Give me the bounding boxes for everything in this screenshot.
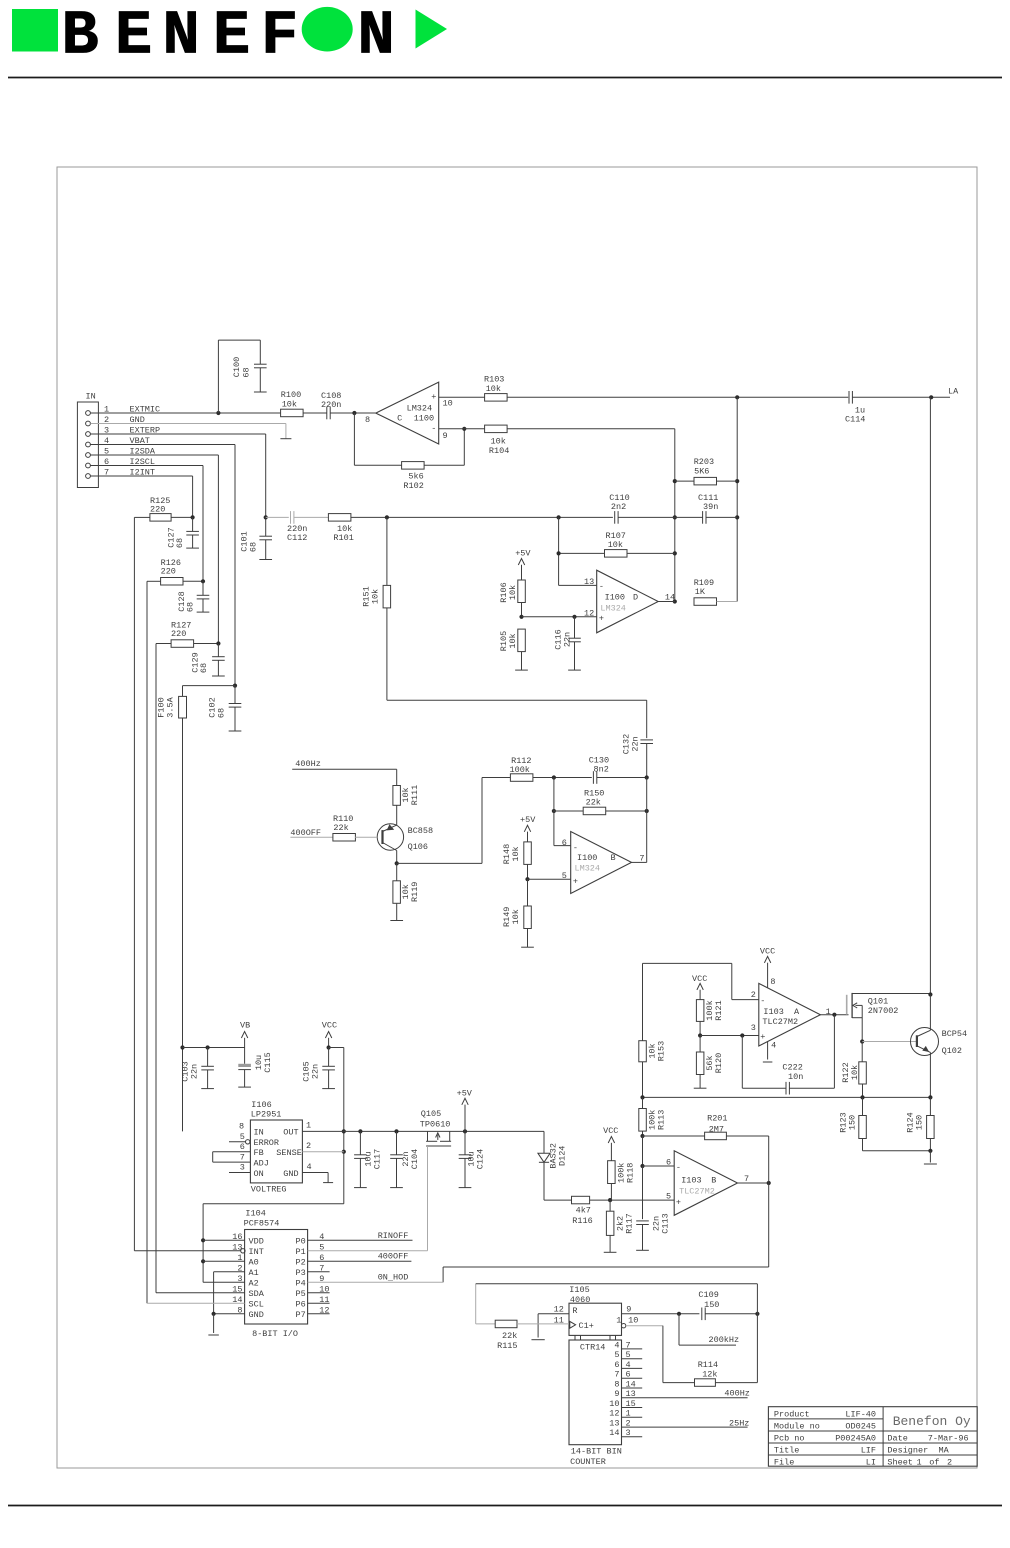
svg-text:10k: 10k	[508, 633, 518, 648]
capacitor C108	[321, 391, 341, 420]
svg-text:22k: 22k	[502, 1331, 517, 1341]
svg-text:22n: 22n	[311, 1064, 321, 1079]
svg-text:C112: C112	[287, 533, 307, 543]
svg-text:R201: R201	[707, 1113, 727, 1123]
svg-text:400OFF: 400OFF	[290, 828, 321, 838]
svg-text:ON: ON	[254, 1169, 264, 1179]
svg-text:C109: C109	[698, 1290, 718, 1300]
resistor R116	[572, 1196, 593, 1226]
svg-text:R116: R116	[572, 1216, 592, 1226]
svg-text:E: E	[213, 0, 250, 71]
svg-text:Title: Title	[774, 1446, 800, 1456]
net label 25Hz out	[729, 1419, 749, 1429]
power +5V R148	[520, 815, 536, 842]
wire A2 pin	[203, 1281, 245, 1283]
svg-text:9: 9	[443, 431, 448, 441]
svg-text:10: 10	[443, 398, 453, 408]
resistor R102	[402, 462, 425, 491]
svg-text:of: of	[929, 1457, 939, 1467]
svg-text:-: -	[599, 582, 604, 592]
svg-text:150: 150	[914, 1115, 924, 1130]
svg-text:VCC: VCC	[760, 946, 775, 956]
wire 0N_HOD link	[443, 1267, 769, 1282]
svg-text:10: 10	[609, 1399, 619, 1409]
svg-text:+: +	[676, 1197, 681, 1207]
capacitor C113	[636, 1166, 671, 1250]
title block	[768, 1407, 977, 1468]
wire LA vertical	[929, 397, 931, 994]
svg-text:400Hz: 400Hz	[295, 759, 321, 769]
wire U2A out	[820, 1013, 848, 1017]
svg-text:C1+: C1+	[579, 1321, 594, 1331]
wire C110-nodeA	[618, 516, 675, 518]
wire feedback R102 loop	[354, 413, 466, 465]
svg-text:R101: R101	[333, 533, 353, 543]
svg-text:D: D	[633, 593, 638, 603]
svg-text:C113: C113	[661, 1213, 671, 1233]
svg-text:12k: 12k	[702, 1370, 717, 1380]
wire out feedback link	[632, 778, 647, 863]
svg-text:3: 3	[626, 1428, 631, 1438]
bottom horizontal rule	[8, 1505, 1002, 1507]
svg-text:P5: P5	[296, 1289, 306, 1299]
wire R116-pin5 node	[590, 1198, 675, 1202]
wire EXTERP node row	[264, 515, 289, 519]
capacitor C104	[390, 1131, 420, 1187]
svg-text:R153: R153	[657, 1041, 667, 1061]
svg-text:OD0245: OD0245	[845, 1422, 876, 1432]
net stub 400OFF	[290, 828, 333, 838]
resistor R150	[552, 789, 649, 815]
svg-text:2n2: 2n2	[611, 502, 626, 512]
svg-text:A1: A1	[249, 1268, 259, 1278]
wire VDD pin	[203, 1239, 245, 1241]
svg-text:R104: R104	[489, 446, 509, 456]
resistor R115	[495, 1320, 569, 1351]
resistor R121	[696, 1000, 724, 1036]
svg-text:14: 14	[626, 1379, 636, 1389]
resistor R107	[559, 531, 675, 557]
wire P4 0N_HOD	[308, 1281, 444, 1283]
svg-text:68: 68	[242, 367, 252, 377]
ground stub C102	[229, 730, 242, 732]
svg-text:P6: P6	[296, 1300, 306, 1310]
capacitor C112	[287, 511, 307, 543]
svg-text:5: 5	[626, 1350, 631, 1360]
wire F100 down	[180, 718, 184, 1131]
svg-text:Benefon Oy: Benefon Oy	[893, 1414, 971, 1429]
svg-text:150: 150	[704, 1300, 719, 1310]
resistor R122	[841, 1042, 867, 1098]
resistor R103	[484, 375, 507, 401]
svg-text:1K: 1K	[695, 587, 706, 597]
svg-text:Q105: Q105	[421, 1109, 441, 1119]
wire P6 stub	[308, 1302, 330, 1304]
svg-text:22k: 22k	[333, 823, 348, 833]
wire pin6 node	[640, 1136, 674, 1168]
capacitor C103	[181, 1048, 214, 1089]
ground stub C124	[459, 1187, 472, 1189]
svg-text:+: +	[573, 876, 578, 886]
wire OUT row	[302, 1129, 544, 1133]
Benefon logo green O	[302, 7, 353, 52]
wire D124-R116	[544, 1162, 572, 1200]
capacitor C102	[208, 686, 242, 731]
diode D124 BAS32	[538, 1131, 568, 1168]
wire P2 400OFF	[308, 1260, 412, 1262]
svg-text:VDD: VDD	[249, 1237, 264, 1247]
resistor R153	[639, 1041, 667, 1098]
capacitor C101	[240, 517, 273, 559]
svg-text:4060: 4060	[570, 1295, 590, 1305]
counter output pins Q4-Q14	[609, 1340, 747, 1438]
svg-text:FB: FB	[254, 1148, 264, 1158]
svg-text:1100: 1100	[414, 414, 434, 424]
ground stub C117	[354, 1187, 367, 1189]
wire VCC to OUT	[329, 1048, 346, 1204]
svg-text:8-BIT I/O: 8-BIT I/O	[252, 1329, 298, 1339]
capacitor C115	[238, 1048, 273, 1088]
svg-text:I100: I100	[605, 593, 625, 603]
svg-text:7: 7	[240, 1152, 245, 1162]
schematic frame border	[57, 167, 977, 1468]
svg-text:P3: P3	[296, 1268, 306, 1278]
capacitor C129	[191, 644, 225, 677]
junction node EXTMIC/C100	[216, 411, 220, 415]
net label 400OFF	[378, 1251, 409, 1261]
power +5V at C124	[457, 1089, 473, 1132]
wire R153 loop to pin2	[643, 963, 759, 1040]
svg-text:220: 220	[150, 505, 165, 515]
svg-text:ADJ: ADJ	[254, 1159, 269, 1169]
svg-text:1: 1	[826, 1007, 831, 1017]
svg-text:I103: I103	[681, 1175, 701, 1185]
wire EXTERP	[90, 434, 265, 517]
resistor R117	[606, 1200, 634, 1252]
svg-text:C104: C104	[410, 1149, 420, 1169]
svg-text:8: 8	[614, 1379, 619, 1389]
wire C114-LA	[852, 395, 950, 399]
svg-text:+: +	[760, 1032, 765, 1042]
wire R104 to node A	[507, 429, 675, 602]
svg-text:R119: R119	[410, 882, 420, 902]
svg-text:TLC27M2: TLC27M2	[762, 1017, 798, 1027]
wire pin10 row	[616, 1315, 694, 1382]
svg-text:6: 6	[562, 838, 567, 848]
wire SCL pin	[147, 1302, 245, 1304]
svg-text:R118: R118	[626, 1163, 636, 1183]
wire VB rail	[183, 1045, 245, 1049]
svg-text:100k: 100k	[510, 765, 530, 775]
svg-text:14-BIT BIN: 14-BIT BIN	[571, 1446, 622, 1456]
op-amp U2A TLC27M2	[751, 977, 831, 1050]
svg-text:25Hz: 25Hz	[729, 1419, 749, 1429]
wire VBAT	[90, 445, 235, 686]
IC I105 4060 counter box	[569, 1335, 622, 1466]
svg-text:8: 8	[770, 977, 775, 987]
wire C108-opamp	[330, 411, 376, 415]
svg-text:VCC: VCC	[603, 1126, 618, 1136]
svg-text:C: C	[397, 414, 402, 424]
svg-text:P2: P2	[296, 1258, 306, 1268]
wire R125-INT	[133, 517, 135, 1250]
wire Q101 source node	[860, 1039, 917, 1043]
ground stub C103	[201, 1088, 214, 1090]
svg-text:I104: I104	[245, 1209, 265, 1219]
wire pin12 row	[519, 615, 596, 619]
wire P0 RINOFF	[308, 1239, 413, 1241]
svg-text:7: 7	[639, 853, 644, 863]
resistor R109	[694, 578, 738, 605]
capacitor C114	[845, 391, 865, 425]
svg-text:R114: R114	[698, 1360, 718, 1370]
wire R126-SCL	[146, 581, 148, 1303]
svg-text:8n2: 8n2	[594, 764, 609, 774]
svg-text:TP0610: TP0610	[420, 1120, 451, 1130]
junction Q106 emitter	[395, 861, 399, 865]
ground symbol pin12	[531, 1339, 544, 1341]
op-amp U1D LM324	[584, 570, 675, 633]
svg-text:Module no: Module no	[774, 1422, 820, 1432]
Benefon logo green square	[12, 9, 58, 52]
svg-text:1: 1	[306, 1121, 311, 1131]
ground pin4 U2A	[763, 1041, 773, 1062]
wire R103-C114	[507, 395, 848, 399]
svg-text:2: 2	[751, 990, 756, 1000]
wire P3 stub	[308, 1271, 330, 1273]
wire SENSE	[302, 1151, 343, 1153]
svg-text:3: 3	[751, 1023, 756, 1033]
wire GND row	[90, 424, 286, 439]
svg-text:3: 3	[240, 1163, 245, 1173]
resistor R110	[333, 814, 377, 841]
svg-text:200kHz: 200kHz	[709, 1335, 740, 1345]
svg-text:10k: 10k	[282, 399, 297, 409]
IC I104 PCF8574	[232, 1209, 329, 1340]
svg-text:R117: R117	[624, 1213, 634, 1233]
power +5V R106	[515, 549, 531, 581]
svg-text:Sheet: Sheet	[887, 1457, 913, 1467]
svg-text:22n: 22n	[190, 1064, 200, 1079]
resistor R125	[134, 496, 194, 521]
resistor R101	[328, 514, 353, 544]
wire C110 node vertical	[557, 517, 597, 585]
wire pin10 row	[439, 396, 485, 398]
ground stub C116	[568, 669, 581, 671]
svg-text:220n: 220n	[321, 400, 341, 410]
svg-text:IN: IN	[86, 392, 96, 402]
wire R100-C108	[303, 412, 327, 414]
wire C109 right	[705, 1284, 759, 1383]
svg-text:VB: VB	[240, 1021, 250, 1031]
ground stub C129	[212, 675, 225, 677]
resistor R126	[147, 558, 205, 585]
svg-text:10k: 10k	[370, 589, 380, 604]
wire R101-C110 row	[351, 515, 613, 519]
ground stub R149	[521, 946, 534, 948]
svg-text:4: 4	[307, 1162, 312, 1172]
resistor R100	[281, 390, 304, 417]
ground symbol R124	[924, 1163, 937, 1165]
svg-text:7: 7	[626, 1340, 631, 1350]
svg-text:10k: 10k	[608, 540, 623, 550]
resistor R201	[643, 1113, 769, 1139]
svg-text:0N_HOD: 0N_HOD	[378, 1272, 409, 1282]
capacitor C116	[554, 617, 581, 670]
capacitor C105	[302, 1048, 335, 1089]
top horizontal rule	[8, 77, 1002, 79]
wire R127-SDA	[155, 644, 157, 1293]
resistor R106	[499, 580, 526, 617]
svg-text:13: 13	[626, 1389, 636, 1399]
svg-text:R111: R111	[410, 785, 420, 805]
resistor R119	[393, 863, 420, 920]
svg-text:I105: I105	[569, 1285, 589, 1295]
junction R113-R201	[640, 1134, 644, 1138]
svg-text:Q102: Q102	[942, 1046, 962, 1056]
svg-text:+5V: +5V	[457, 1089, 473, 1099]
ground stub C101	[259, 559, 272, 561]
ground stub R119	[390, 920, 403, 922]
ground stub C105	[322, 1088, 335, 1090]
power flag VCC R121	[692, 974, 707, 1000]
transistor Q106 BC858	[377, 805, 433, 863]
wire emitter to R112	[397, 778, 511, 864]
svg-text:Pcb no: Pcb no	[774, 1434, 805, 1444]
svg-text:5: 5	[666, 1191, 671, 1201]
svg-text:C115: C115	[263, 1052, 273, 1072]
wire pin12 R gnd	[538, 1314, 569, 1338]
svg-text:Q106: Q106	[408, 842, 428, 852]
svg-text:D124: D124	[558, 1146, 568, 1166]
svg-text:R120: R120	[714, 1053, 724, 1073]
svg-text:GND: GND	[249, 1310, 264, 1320]
svg-text:File: File	[774, 1457, 794, 1467]
pin ERROR stub	[229, 1140, 250, 1144]
fuse F100	[157, 696, 187, 718]
svg-text:13: 13	[584, 577, 594, 587]
op-amp U1B LM324	[562, 832, 645, 894]
capacitor C124	[459, 1131, 486, 1187]
svg-text:MA: MA	[939, 1446, 950, 1456]
svg-text:LIF-40: LIF-40	[845, 1410, 876, 1420]
wire I2SDA	[90, 455, 218, 644]
power flag VCC U2A	[760, 946, 775, 988]
svg-text:15: 15	[626, 1399, 636, 1409]
svg-text:+5V: +5V	[520, 815, 536, 825]
svg-text:P0: P0	[296, 1237, 306, 1247]
svg-text:GND: GND	[283, 1169, 298, 1179]
svg-text:P7: P7	[296, 1310, 306, 1320]
svg-text:VCC: VCC	[692, 974, 707, 984]
svg-text:Product: Product	[774, 1410, 810, 1420]
wire opampD out	[658, 601, 675, 603]
svg-text:A0: A0	[249, 1258, 259, 1268]
svg-text:1: 1	[917, 1457, 922, 1467]
svg-text:B: B	[62, 0, 99, 71]
net label LA	[948, 387, 959, 397]
resistor R120	[696, 1036, 724, 1089]
svg-text:VOLTREG: VOLTREG	[251, 1184, 287, 1194]
svg-text:R115: R115	[497, 1341, 517, 1351]
svg-text:COUNTER: COUNTER	[570, 1457, 606, 1467]
wire R151-C132	[387, 700, 647, 738]
wire node B vertical	[735, 397, 739, 601]
svg-text:39n: 39n	[703, 502, 718, 512]
ground stub R117	[604, 1251, 617, 1253]
svg-text:14: 14	[609, 1428, 619, 1438]
Benefon logo text BENEF-N	[62, 0, 395, 71]
net label 0N_HOD	[378, 1272, 409, 1282]
svg-text:10k: 10k	[511, 909, 521, 924]
svg-text:22k: 22k	[586, 798, 601, 808]
ground symbol I106	[323, 1182, 333, 1184]
junction Q101 drain	[928, 992, 932, 996]
svg-text:BC858: BC858	[408, 826, 434, 836]
wire pin9 row	[622, 1305, 700, 1316]
svg-text:C117: C117	[373, 1149, 383, 1169]
svg-text:E: E	[115, 0, 152, 71]
svg-text:68: 68	[199, 663, 209, 673]
svg-text:OUT: OUT	[283, 1128, 298, 1138]
svg-text:R121: R121	[714, 1000, 724, 1020]
wire A0 pin	[203, 1260, 245, 1262]
svg-text:Date: Date	[887, 1434, 907, 1444]
svg-text:R113: R113	[657, 1110, 667, 1130]
wire I2INT	[90, 476, 192, 517]
svg-text:1: 1	[616, 1315, 621, 1325]
net stub 400Hz	[292, 759, 397, 785]
svg-text:12: 12	[554, 1304, 564, 1314]
capacitor C110	[609, 493, 629, 524]
svg-text:B: B	[711, 1175, 716, 1185]
svg-text:4: 4	[614, 1340, 619, 1350]
svg-text:8: 8	[365, 415, 370, 425]
capacitor C109	[698, 1290, 719, 1320]
svg-text:10k: 10k	[511, 846, 521, 861]
wire C130-C132 node	[597, 775, 649, 779]
svg-text:5k6: 5k6	[408, 472, 423, 482]
svg-text:Designer: Designer	[887, 1446, 928, 1456]
ground stub C115	[238, 1086, 251, 1088]
wire pin5 row	[525, 877, 570, 881]
svg-text:C100: C100	[232, 357, 242, 377]
svg-text:68: 68	[175, 538, 185, 548]
svg-text:P00245A0: P00245A0	[835, 1434, 876, 1444]
resistor R127	[156, 621, 220, 648]
wire lower rail	[640, 1095, 932, 1099]
svg-text:4k7: 4k7	[576, 1206, 591, 1216]
Benefon logo green triangle	[416, 10, 448, 49]
svg-text:2: 2	[626, 1419, 631, 1429]
transistor Q101 2N7002	[847, 993, 931, 1042]
svg-text:6: 6	[240, 1142, 245, 1152]
wire GND pin I106	[302, 1173, 328, 1183]
wire FB-ADJ loop	[213, 1152, 251, 1162]
resistor R105	[499, 629, 526, 670]
resistor R118	[608, 1161, 636, 1200]
wire osc top loop	[476, 1284, 758, 1324]
svg-text:13: 13	[609, 1419, 619, 1429]
resistor R111	[393, 785, 420, 806]
svg-text:+: +	[431, 392, 436, 402]
svg-text:10n: 10n	[788, 1072, 803, 1082]
svg-text:LM324: LM324	[407, 404, 433, 414]
ground stub C128	[197, 611, 210, 613]
svg-text:2N7002: 2N7002	[868, 1006, 899, 1016]
svg-text:68: 68	[217, 708, 227, 718]
svg-text:10k: 10k	[508, 585, 518, 600]
